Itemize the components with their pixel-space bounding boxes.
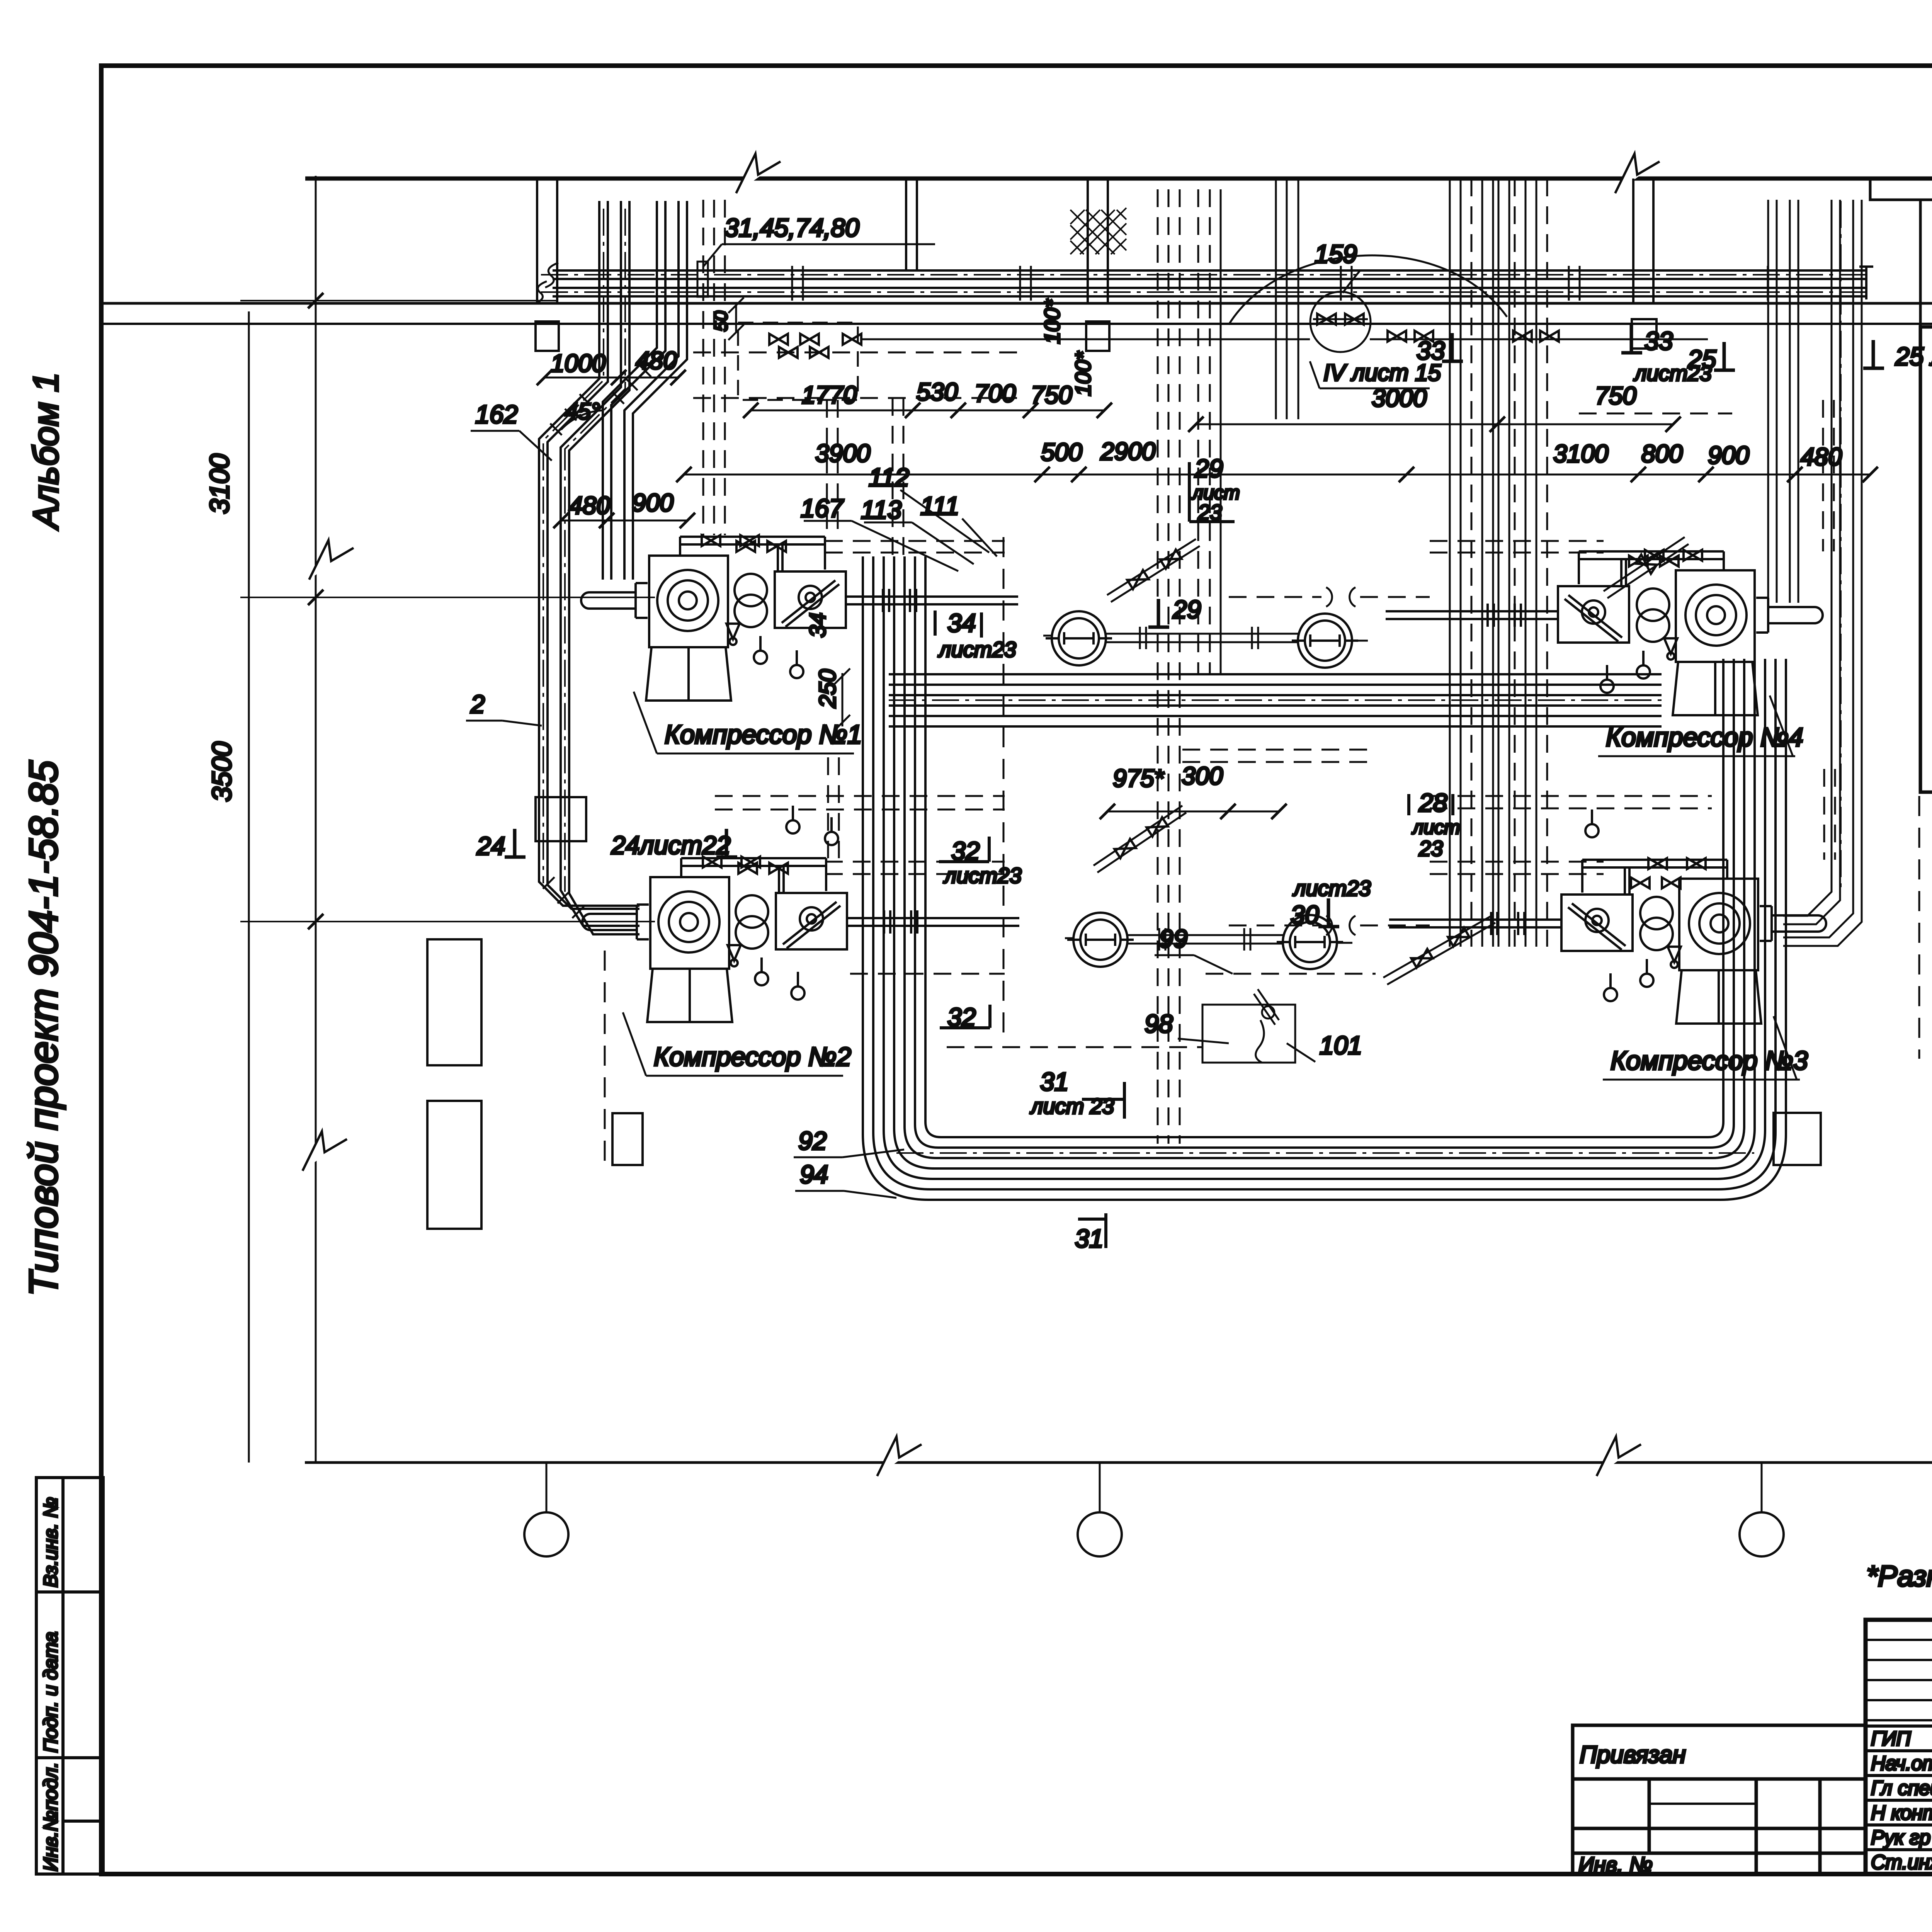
vessel row1 left (1046, 611, 1112, 665)
dashed header line 2 (693, 397, 1020, 399)
floor equipment rect 1 (427, 939, 481, 1065)
row2 dashed low (850, 973, 1376, 975)
riser pair at wall (906, 179, 917, 270)
break on dim line (309, 540, 354, 580)
wall pipe 2 centerline (541, 291, 1866, 293)
valves on dashed line (779, 347, 798, 358)
column 1 (537, 179, 557, 303)
dashed valve box (738, 323, 858, 400)
manifold pipe U 7 (925, 556, 1723, 1137)
manifold centerline dashdot (896, 1152, 1754, 1154)
dashed risers to comp3 top (1824, 769, 1835, 860)
wall break symbol right (1615, 154, 1660, 193)
dim slashes on vertical line (308, 293, 323, 929)
svg-text:25 лист 22: 25 лист 22 (1895, 342, 1932, 371)
manifold pipe U 4 (894, 556, 1755, 1168)
svg-text:2900: 2900 (1100, 437, 1156, 465)
wall pipe 2 (553, 288, 1866, 296)
interior dashed line (947, 1046, 1202, 1048)
svg-text:2: 2 (470, 690, 485, 718)
svg-text:101: 101 (1320, 1031, 1362, 1060)
dashed header line 1 (693, 352, 1020, 354)
svg-text:29: 29 (1194, 454, 1223, 483)
svg-text:900: 900 (632, 489, 673, 517)
dimension 975/300 (1100, 804, 1287, 819)
riser group G1 to comp1 (703, 200, 725, 535)
corridor line upper (101, 302, 1932, 305)
svg-text:Компрессор №3: Компрессор №3 (1611, 1046, 1808, 1075)
inter-row dashed lines right (1430, 796, 1712, 808)
svg-text:Н контр: Н контр (1871, 1802, 1932, 1824)
dashed header line right (1579, 413, 1732, 415)
bundle A centerlines (543, 209, 625, 892)
bottom wall break 2 (1597, 1437, 1641, 1476)
svg-text:лист 23: лист 23 (1030, 1094, 1114, 1118)
pipe right end tee (1859, 267, 1873, 299)
svg-text:100*: 100* (1040, 299, 1064, 344)
grid circle bottom 3 (1761, 1463, 1763, 1512)
svg-text:3500: 3500 (207, 742, 237, 802)
left grid vertical B dim line (315, 176, 317, 1463)
svg-text:*Размеры для справок: *Размеры для справок (1866, 1560, 1932, 1593)
column 2 footing (1086, 321, 1109, 351)
svg-text:100*: 100* (1071, 351, 1095, 396)
manifold pipe U 5 (905, 556, 1744, 1158)
detail circle pipe (1313, 318, 1368, 320)
center riser group G5 (1276, 179, 1298, 419)
svg-text:1000: 1000 (551, 349, 606, 377)
floor equipment rect 3 (612, 1113, 643, 1165)
manifold pipe U 2 (873, 556, 1776, 1189)
manifold top bundle line 3 (889, 694, 1662, 696)
manifold top bundle line 2 (889, 684, 1662, 686)
svg-text:31: 31 (1075, 1224, 1103, 1253)
dashed risers to comp4 top (1823, 400, 1834, 551)
dashed inter-row lines center (1182, 750, 1376, 762)
valve row pipe left (862, 338, 1310, 340)
svg-text:Компрессор №1: Компрессор №1 (665, 720, 862, 749)
valve box 101 (1202, 1005, 1295, 1063)
short dashed stubs with arc breaks row1 (1229, 596, 1430, 598)
dimension main row 3900... (676, 467, 1878, 482)
svg-text:Нач.отд: Нач.отд (1871, 1752, 1932, 1775)
svg-text:Компрессор №4: Компрессор №4 (1606, 723, 1803, 752)
svg-text:3900: 3900 (815, 439, 871, 467)
svg-text:лист23: лист23 (1293, 876, 1371, 900)
svg-text:28: 28 (1418, 788, 1447, 817)
svg-text:162: 162 (475, 400, 518, 429)
column 3 (1633, 179, 1653, 303)
vessel row2 right (1277, 915, 1343, 969)
left grid vertical A (248, 311, 250, 1463)
svg-text:33: 33 (1645, 327, 1673, 355)
svg-text:975*: 975* (1113, 764, 1165, 792)
svg-text:99: 99 (1159, 924, 1187, 953)
flange item rect (697, 262, 708, 297)
diagonal discharge D1 (1107, 539, 1200, 602)
svg-text:750: 750 (1031, 381, 1072, 409)
svg-text:Ст.инж: Ст.инж (1871, 1851, 1932, 1874)
svg-text:113: 113 (861, 495, 902, 524)
svg-text:29: 29 (1172, 595, 1201, 624)
manifold pipe U 1 (863, 556, 1786, 1200)
manifold top centerline dashdot (889, 699, 1662, 701)
dimension top-left 1000/480 (537, 370, 686, 385)
svg-text:700: 700 (975, 379, 1016, 407)
svg-text:480: 480 (569, 492, 610, 519)
dashed riser pair left of ring (893, 398, 903, 558)
wall break symbol left (736, 154, 781, 193)
dashed room axis (1918, 796, 1920, 1059)
Shchitovaya room (1920, 327, 1932, 792)
dimension 3000/750 (1188, 417, 1681, 432)
right riser group to comp4 (1768, 200, 1798, 603)
compressor U2 (582, 857, 1019, 1022)
dim 50 small (728, 298, 744, 340)
hanger ticks on wall pipes (792, 266, 1768, 301)
break on dim line lower (303, 1131, 347, 1171)
svg-text:24лист22: 24лист22 (611, 831, 731, 859)
dashed risers to comp1 top (827, 400, 838, 537)
manifold pipe U 3 (884, 556, 1765, 1179)
row2 dashed connections left (825, 862, 1005, 874)
small gauges between rows (786, 806, 799, 833)
compressor U3 mirrored (1389, 858, 1826, 1024)
svg-text:Вз.инв. №: Вз.инв. № (40, 1497, 61, 1587)
svg-text:50: 50 (711, 311, 731, 332)
valve 101 glyph (1254, 989, 1279, 1063)
manifold top bundle line 6 (889, 725, 1662, 728)
svg-text:24: 24 (476, 832, 505, 860)
dimension 1770/530/700/750 (743, 403, 1112, 418)
bundle A weld ticks (543, 394, 591, 918)
row1 dashed connections right (1430, 541, 1604, 553)
svg-text:31,45,74,80: 31,45,74,80 (724, 213, 859, 242)
svg-text:Альбом 1: Альбом 1 (26, 372, 66, 531)
center riser group G3 dashed (1158, 189, 1180, 1144)
svg-text:480: 480 (1801, 443, 1842, 471)
manifold top bundle line 1 (889, 673, 1662, 675)
floor equipment rect 4 (536, 797, 586, 841)
compressor U4 mirrored (1386, 550, 1823, 715)
dashed section axis (1003, 537, 1005, 1043)
svg-text:500: 500 (1041, 438, 1082, 466)
svg-text:98: 98 (1145, 1009, 1173, 1038)
svg-text:159: 159 (1315, 240, 1357, 268)
dimension 480/900 (553, 513, 695, 528)
svg-text:лист23: лист23 (1633, 361, 1712, 385)
privyazan table (1573, 1725, 1866, 1874)
compressor U1 (581, 535, 1018, 701)
right riser group to comp3 (1783, 200, 1862, 946)
row1 collector pipe between vessels (1106, 627, 1298, 649)
right riser centerline (1840, 201, 1842, 889)
svg-text:94: 94 (800, 1160, 828, 1189)
manifold top bundle line 4 (889, 704, 1662, 707)
manifold top bundle line 5 (889, 715, 1662, 717)
grid row line comp row 1 (240, 597, 655, 598)
column 3 footing (1632, 319, 1656, 349)
vessel row2 left (1067, 913, 1134, 967)
diagonal discharge D2 (1604, 537, 1689, 598)
crane cloud arc (1229, 255, 1507, 325)
extra center column riser lines (1498, 179, 1509, 947)
svg-text:112: 112 (869, 463, 909, 492)
svg-text:300: 300 (1182, 762, 1223, 790)
bottom wall break 1 (877, 1437, 922, 1476)
grid row line top (240, 300, 556, 301)
crosshatch patch (1070, 208, 1126, 254)
grid row line comp row 2 (240, 921, 655, 922)
bundle B weld ticks (612, 365, 651, 404)
pipe left end breaks (535, 263, 558, 304)
wall pipe 1 (553, 270, 1866, 279)
wall pipe 1 centerline (541, 274, 1866, 276)
svg-text:111: 111 (920, 492, 959, 520)
top wall inner edge right section (1870, 179, 1932, 200)
svg-text:лист: лист (1412, 816, 1460, 838)
grid circle bottom 2 (1099, 1463, 1101, 1512)
svg-text:750: 750 (1595, 382, 1636, 410)
valves on row (769, 334, 788, 345)
corridor line lower (101, 323, 1932, 325)
bottom wall (305, 1461, 1932, 1464)
row2 collector pipe between vessels (1128, 928, 1283, 951)
svg-text:Рук гр: Рук гр (1871, 1827, 1930, 1849)
svg-text:Гл спец: Гл спец (1871, 1777, 1932, 1799)
svg-text:800: 800 (1641, 440, 1683, 468)
title block row lines (1866, 1640, 1932, 1720)
svg-text:250: 250 (815, 669, 840, 708)
svg-text:Подп. и дата: Подп. и дата (40, 1632, 61, 1753)
vessel row1 right (1292, 614, 1358, 668)
diagonal discharge D4 (1383, 916, 1495, 985)
svg-text:Инв.№подл.: Инв.№подл. (40, 1762, 61, 1871)
diagonal discharge D3 (1094, 806, 1186, 872)
row2 dashed connections right (1430, 862, 1604, 874)
svg-text:530: 530 (917, 378, 958, 406)
grid circle bottom 1 (546, 1463, 548, 1512)
svg-text:Компрессор №2: Компрессор №2 (654, 1042, 851, 1071)
floor equipment rect 7 (1774, 1113, 1821, 1165)
dashed risers to comp2 top (828, 757, 839, 858)
svg-text:34: 34 (947, 609, 976, 637)
svg-text:лист23: лист23 (943, 863, 1022, 888)
Shchitovaya room wall to top (1919, 200, 1922, 327)
side stamp table (36, 1478, 103, 1874)
title block main frame (1866, 1620, 1932, 1874)
floor equipment rect 2 (427, 1101, 481, 1229)
svg-text:480: 480 (636, 347, 677, 374)
svg-text:IV лист 15: IV лист 15 (1323, 360, 1441, 386)
svg-text:Типовой проект 904-1-58.85: Типовой проект 904-1-58.85 (21, 760, 66, 1296)
arc break marks (1326, 587, 1355, 935)
left pipe bundle A to comp2 (539, 201, 639, 934)
svg-text:3100: 3100 (204, 454, 235, 514)
column 1 footing (536, 321, 559, 351)
manifold pipe U 6 (915, 556, 1734, 1148)
svg-text:1770: 1770 (802, 381, 857, 409)
dashed axis through comp2 column (604, 951, 606, 1171)
column 2 (1088, 179, 1108, 303)
center riser group G4 (1198, 189, 1210, 674)
extra valves row1 (736, 541, 755, 552)
svg-text:92: 92 (798, 1126, 827, 1155)
detail circle (1310, 292, 1371, 352)
svg-text:34: 34 (805, 612, 830, 638)
vessel stubs pipes (1043, 636, 1368, 943)
svg-text:ГИП: ГИП (1871, 1728, 1911, 1750)
center riser column dense G6 (1450, 179, 1536, 947)
svg-text:Привязан: Привязан (1580, 1742, 1686, 1768)
svg-text:900: 900 (1708, 441, 1749, 469)
svg-text:Инв. №: Инв. № (1578, 1852, 1653, 1877)
valve row pipe right (1370, 338, 1708, 340)
inter-row dashed lines left (715, 796, 1005, 810)
svg-text:лист23: лист23 (938, 637, 1016, 662)
top wall (305, 177, 1932, 181)
svg-text:23: 23 (1418, 836, 1443, 861)
row1 dashed connections left (825, 541, 1005, 553)
svg-text:31: 31 (1040, 1067, 1068, 1096)
left pipe bundle B to comp1 (603, 201, 687, 580)
svg-text:3100: 3100 (1553, 440, 1609, 468)
